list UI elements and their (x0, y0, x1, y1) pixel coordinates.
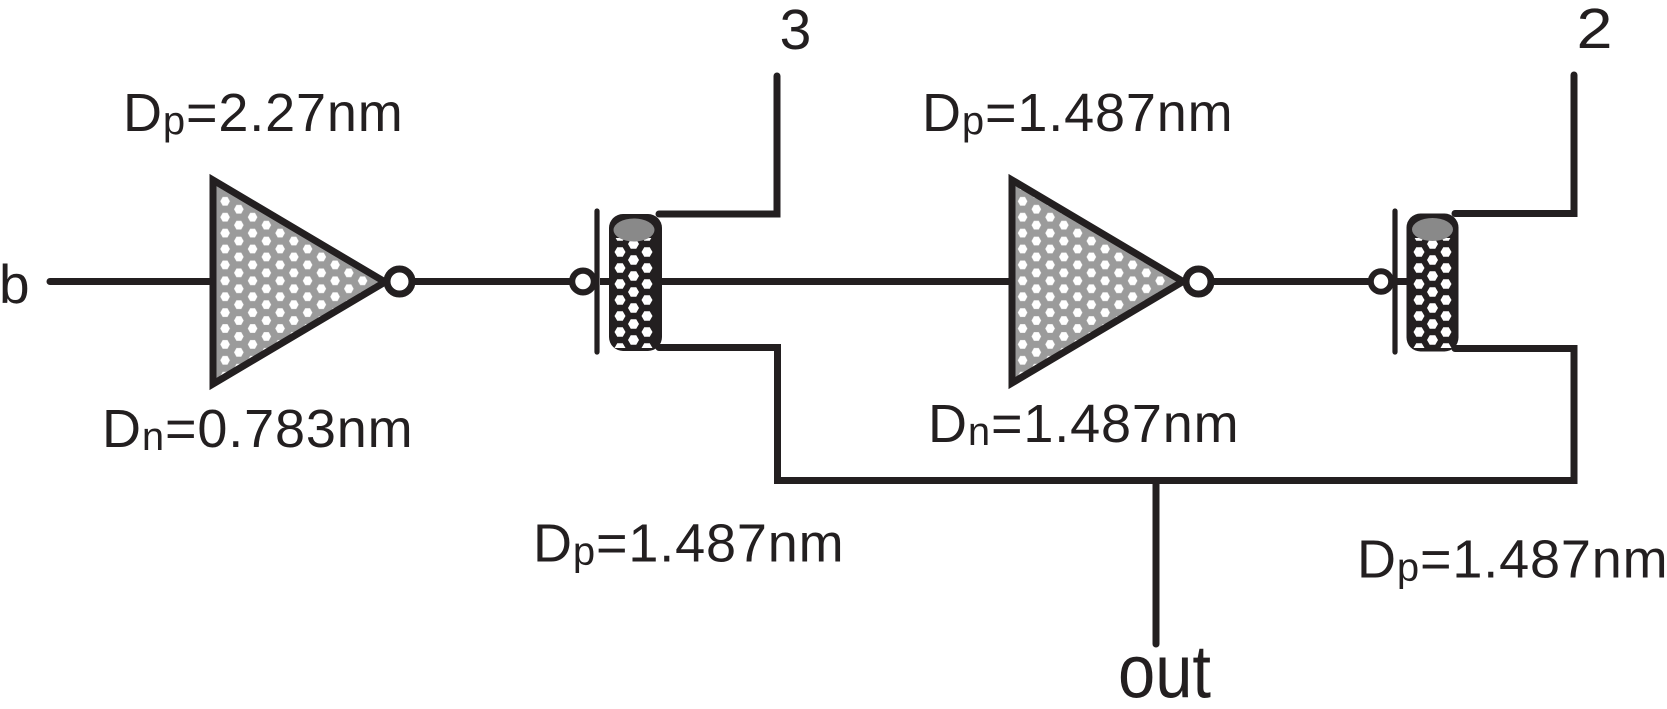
wire Q1 source, bottom rail, Q2 source (659, 348, 1574, 481)
transistor Q1 nanotube top cap (614, 219, 655, 242)
inverter U1 (213, 180, 385, 384)
wire Q2 drain to node 2 (1455, 75, 1574, 214)
transistor Q2 gate bubble (1371, 271, 1391, 291)
wire inverter U2 output to transistor Q2 gate (1211, 278, 1372, 285)
svg-text:b: b (0, 253, 30, 315)
wire input b (50, 278, 214, 285)
transistor Q2 gate bar (1392, 211, 1397, 352)
wire Q2 gate bar to nanotube (1396, 278, 1414, 285)
wire transistor Q1 to inverter U2 input (600, 278, 1014, 285)
svg-text:Dp=1.487nm: Dp=1.487nm (922, 83, 1233, 143)
svg-text:Dp=1.487nm: Dp=1.487nm (533, 514, 844, 574)
transistor Q2 nanotube body (1407, 214, 1459, 352)
svg-text:2: 2 (1577, 0, 1613, 61)
wire inverter U1 output to transistor Q1 gate (412, 278, 572, 285)
transistor Q1 nanotube body (609, 214, 662, 351)
svg-text:Dp=2.27nm: Dp=2.27nm (123, 83, 404, 143)
transistor Q1 gate bar (594, 211, 599, 352)
wire output stem to out (1153, 481, 1160, 645)
inverter U2 (1012, 180, 1183, 383)
svg-text:Dp=1.487nm: Dp=1.487nm (1357, 530, 1667, 590)
svg-text:out: out (1118, 630, 1211, 709)
svg-text:3: 3 (780, 0, 812, 62)
svg-text:Dn=0.783nm: Dn=0.783nm (102, 399, 413, 459)
inverter U1 output bubble (387, 269, 412, 294)
svg-text:Dn=1.487nm: Dn=1.487nm (928, 394, 1239, 454)
transistor Q2 nanotube top cap (1412, 218, 1453, 241)
inverter U2 output bubble (1186, 269, 1211, 294)
transistor Q1 gate bubble (572, 271, 594, 293)
wire Q1 drain to node 3 (659, 76, 777, 214)
